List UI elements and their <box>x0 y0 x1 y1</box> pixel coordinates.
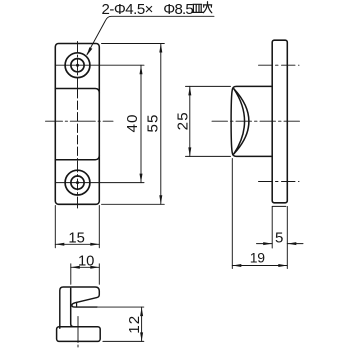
extension line 19 dim left (hook front) <box>231 159 233 269</box>
svg-text:55: 55 <box>144 113 161 132</box>
extension line plate bottom (55 dim) <box>102 203 165 205</box>
bottom view vertical centerline <box>77 317 79 349</box>
vertical centerline lower part <box>77 161 79 210</box>
dimension 5 right tail <box>287 243 303 245</box>
extension line 5 dim right / 19 dim right <box>286 207 288 269</box>
dimension 10 arrow left <box>71 266 80 269</box>
dimension 15 arrow left <box>55 243 64 246</box>
bottom view hook outline <box>60 287 100 328</box>
bottom hole horizontal centerline + 40-dim extension <box>55 182 144 184</box>
top hole countersink circle <box>65 53 90 78</box>
svg-text:5: 5 <box>275 229 283 246</box>
dimension 5 left tail <box>257 243 273 245</box>
bottom hole center dot <box>76 181 79 184</box>
svg-text:40: 40 <box>124 113 141 132</box>
svg-text:Φ8.5: Φ8.5 <box>163 1 193 18</box>
extension line 5 dim left <box>271 207 273 249</box>
dimension 19 arrow left <box>232 264 241 267</box>
dimension 40 arrow down <box>140 174 143 183</box>
extension line 12 dim top (lip bottom) <box>97 306 144 308</box>
top hole horizontal centerline + 40-dim extension <box>55 64 144 66</box>
vertical centerline through holes <box>77 42 79 88</box>
dimension 5 right arrow <box>287 242 296 245</box>
dimension 12 arrow up <box>140 307 143 316</box>
extension line 10 dim right <box>98 264 100 285</box>
kanji ana (hole) glyph <box>203 2 212 13</box>
dimension 55 line <box>160 44 162 205</box>
side view top hole centerline <box>259 64 300 66</box>
dimension 40 arrow up <box>140 65 143 74</box>
leader line to countersunk holes <box>87 16 214 54</box>
side view bottom hole centerline <box>259 181 300 183</box>
front view plate outline <box>55 44 99 205</box>
dimension 55 arrow up <box>159 44 162 53</box>
dimension 5 left arrow <box>263 242 272 245</box>
top hole center dot <box>76 64 79 67</box>
dimension 25 arrow down <box>188 147 191 156</box>
svg-text:10: 10 <box>78 254 94 270</box>
bottom view base plate outline <box>57 327 101 342</box>
dimension 15 arrow right <box>90 243 99 246</box>
hidden line (dashed) between boss edges <box>77 90 79 160</box>
side view boss outline <box>231 86 272 156</box>
extension line 12 dim bottom <box>103 340 144 342</box>
boss curved face tangent arc inner <box>234 89 245 154</box>
extension line 15 dim right <box>98 206 100 248</box>
boss lower edge (front view) <box>55 155 99 160</box>
bottom view lip fold line <box>76 303 78 308</box>
dimension 15 line <box>55 243 99 245</box>
bottom hole bore circle <box>71 176 84 189</box>
front view main horizontal centerline <box>46 120 114 122</box>
dimension 55 arrow down <box>159 195 162 204</box>
extension line 25 dim bottom <box>186 155 231 157</box>
dimension 12 arrow down <box>140 332 143 341</box>
svg-text:15: 15 <box>68 231 84 247</box>
dimension 25 arrow up <box>188 86 191 95</box>
dimension 19 line <box>232 265 287 267</box>
svg-text:19: 19 <box>250 250 265 266</box>
dimension 10 line <box>71 266 100 268</box>
extension line 15 dim left <box>54 206 56 248</box>
leader arrowhead <box>87 47 93 56</box>
extension line 10 dim left <box>70 264 72 285</box>
svg-text:12: 12 <box>126 315 143 334</box>
dimension 19 arrow right <box>278 264 287 267</box>
boss upper edge (front view) <box>55 89 99 94</box>
flange bottom lower edge line <box>272 205 286 207</box>
dimension 10 arrow right <box>90 266 99 269</box>
top hole bore circle <box>71 59 84 72</box>
bottom view stem right edge <box>71 288 74 327</box>
bottom hole countersink circle <box>65 170 90 195</box>
kanji sara (dish) glyph <box>192 4 203 12</box>
extension line 25 dim top <box>186 85 231 87</box>
dimension 12 line <box>141 307 143 341</box>
side view flange outline <box>272 40 287 203</box>
extension line plate top (55 dim) <box>102 43 165 45</box>
dimension 40 line <box>140 65 142 182</box>
side view main horizontal centerline <box>212 120 300 122</box>
boss curved face tangent arc outer <box>234 89 249 154</box>
svg-text:2-Φ4.5×: 2-Φ4.5× <box>102 1 153 18</box>
dimension 25 line <box>189 86 191 156</box>
svg-text:25: 25 <box>175 111 192 130</box>
